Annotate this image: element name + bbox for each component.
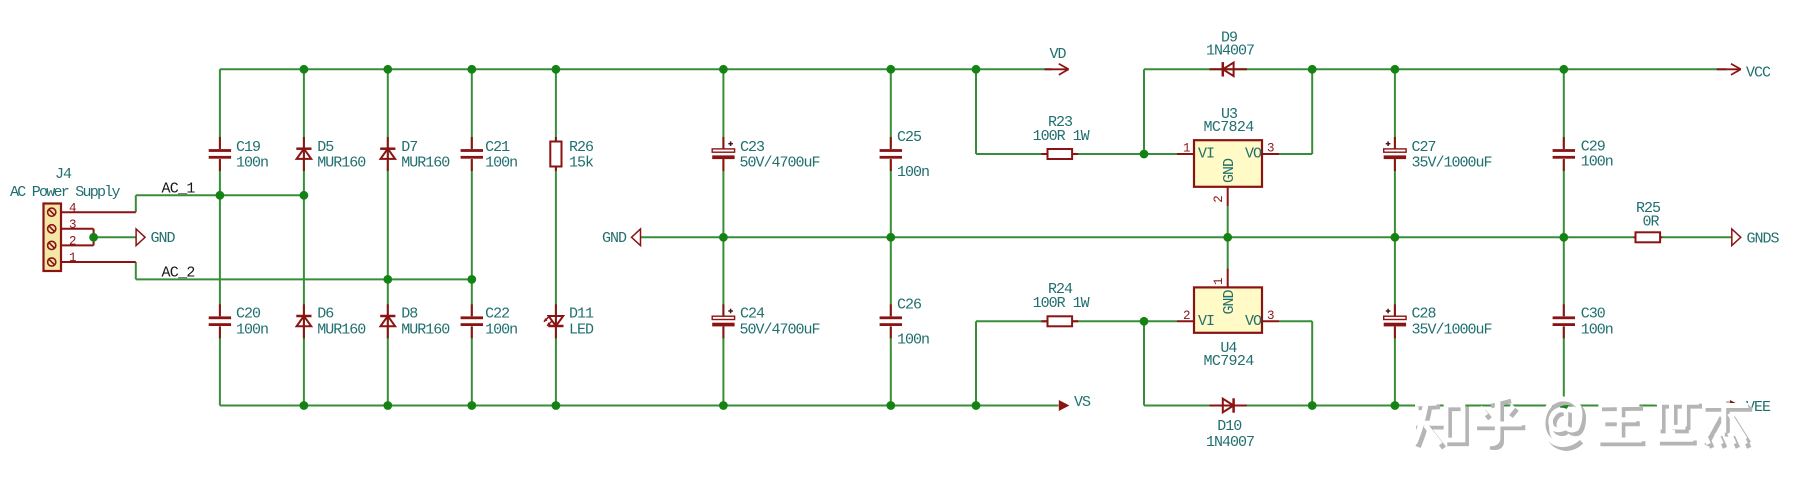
svg-text:J4: J4 — [55, 166, 72, 183]
svg-text:MUR160: MUR160 — [317, 155, 366, 172]
svg-text:100n: 100n — [485, 155, 517, 172]
svg-text:MC7824: MC7824 — [1204, 119, 1255, 136]
svg-text:1: 1 — [69, 251, 77, 265]
svg-text:GND: GND — [602, 230, 627, 247]
svg-text:C19: C19 — [236, 139, 260, 156]
svg-text:3: 3 — [69, 218, 77, 232]
svg-text:C27: C27 — [1412, 139, 1436, 156]
svg-text:AC_2: AC_2 — [162, 265, 195, 282]
svg-text:100n: 100n — [1581, 322, 1613, 339]
svg-text:GNDS: GNDS — [1747, 230, 1780, 247]
svg-text:LED: LED — [569, 322, 594, 339]
svg-text:VI: VI — [1198, 313, 1214, 330]
svg-text:VS: VS — [1074, 394, 1091, 411]
svg-text:35V/1000uF: 35V/1000uF — [1412, 155, 1492, 172]
svg-text:1: 1 — [1212, 277, 1226, 285]
svg-text:3: 3 — [1267, 309, 1275, 323]
svg-text:C28: C28 — [1412, 306, 1437, 323]
svg-text:50V/4700uF: 50V/4700uF — [740, 322, 820, 339]
svg-text:100n: 100n — [1581, 154, 1613, 171]
svg-text:100n: 100n — [236, 155, 268, 172]
svg-text:GND: GND — [151, 230, 176, 247]
svg-text:VI: VI — [1198, 146, 1214, 163]
svg-text:D7: D7 — [401, 139, 417, 156]
svg-text:AC_1: AC_1 — [162, 181, 196, 198]
svg-text:2: 2 — [1183, 309, 1191, 323]
svg-text:1: 1 — [1183, 142, 1191, 156]
svg-text:C25: C25 — [897, 129, 922, 146]
svg-text:C24: C24 — [740, 306, 765, 323]
svg-text:100R 1W: 100R 1W — [1033, 128, 1090, 145]
svg-text:50V/4700uF: 50V/4700uF — [740, 155, 820, 172]
svg-text:GND: GND — [1221, 289, 1238, 314]
svg-text:3: 3 — [1267, 142, 1275, 156]
svg-text:0R: 0R — [1643, 214, 1660, 231]
svg-text:C20: C20 — [236, 306, 261, 323]
svg-text:AC Power Supply: AC Power Supply — [10, 184, 121, 201]
svg-text:C22: C22 — [485, 306, 509, 323]
svg-text:2: 2 — [1212, 195, 1226, 203]
svg-text:2: 2 — [69, 235, 77, 249]
svg-text:MUR160: MUR160 — [401, 155, 450, 172]
svg-text:VCC: VCC — [1746, 64, 1771, 81]
svg-text:C23: C23 — [740, 139, 765, 156]
svg-text:D10: D10 — [1217, 418, 1242, 435]
svg-text:1N4007: 1N4007 — [1206, 434, 1254, 451]
svg-text:MC7924: MC7924 — [1204, 353, 1255, 370]
svg-text:GND: GND — [1221, 158, 1238, 183]
svg-text:VO: VO — [1245, 313, 1262, 330]
svg-text:100n: 100n — [897, 332, 929, 349]
svg-text:100n: 100n — [897, 164, 929, 181]
svg-text:VO: VO — [1245, 146, 1262, 163]
svg-text:D11: D11 — [569, 306, 594, 323]
svg-text:R26: R26 — [569, 139, 594, 156]
svg-text:D5: D5 — [317, 139, 334, 156]
svg-text:D8: D8 — [401, 306, 418, 323]
svg-text:100n: 100n — [485, 322, 517, 339]
svg-text:4: 4 — [69, 201, 77, 215]
svg-text:MUR160: MUR160 — [317, 322, 366, 339]
svg-text:100R 1W: 100R 1W — [1033, 295, 1090, 312]
svg-text:35V/1000uF: 35V/1000uF — [1412, 322, 1492, 339]
svg-text:VD: VD — [1050, 46, 1067, 63]
svg-text:1N4007: 1N4007 — [1206, 43, 1254, 60]
svg-text:C21: C21 — [485, 139, 510, 156]
svg-text:100n: 100n — [236, 322, 268, 339]
svg-text:MUR160: MUR160 — [401, 322, 450, 339]
svg-text:D6: D6 — [317, 306, 334, 323]
svg-text:C30: C30 — [1581, 306, 1606, 323]
svg-text:C26: C26 — [897, 297, 922, 314]
svg-text:15k: 15k — [569, 155, 594, 172]
